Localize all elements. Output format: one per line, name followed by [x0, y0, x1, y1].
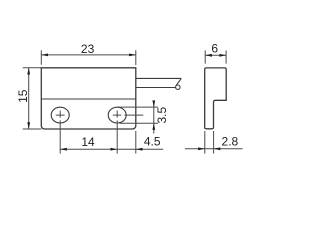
dim 23 line — [41, 54, 136, 56]
arrow 23 right — [129, 54, 136, 57]
dim 23 extension lines — [41, 50, 136, 65]
arrow 15 bottom — [27, 122, 30, 129]
arrow 6 left — [205, 54, 212, 57]
arrow 6 right — [219, 54, 226, 57]
svg-text:2.8: 2.8 — [222, 134, 239, 148]
arrow 2.8 right — [214, 147, 221, 150]
cable top edge — [136, 77, 181, 79]
arrow 23 left — [41, 54, 48, 57]
dim 3.5 line — [153, 101, 155, 134]
dim 15 extension lines — [23, 68, 42, 129]
dim 6 extension lines — [205, 50, 226, 63]
arrow 3.5 bottom — [152, 123, 155, 130]
svg-text:4.5: 4.5 — [144, 134, 161, 148]
svg-text:6: 6 — [211, 41, 218, 55]
mounting hole H1 — [51, 107, 69, 123]
arrow 4.5 at body edge — [136, 148, 143, 151]
dim 14 / 4.5 line — [60, 148, 163, 150]
sensor body outline (front view) — [41, 68, 136, 129]
arrow 14 right — [111, 148, 118, 151]
svg-text:15: 15 — [16, 89, 30, 103]
hole H2 centerlines — [113, 111, 144, 154]
arrow 3.5 top — [152, 100, 155, 107]
svg-text:14: 14 — [81, 135, 95, 149]
dim 15 line — [28, 68, 30, 129]
arrow 15 top — [27, 68, 30, 75]
hole H1 centerlines — [56, 111, 65, 154]
side view profile — [205, 68, 227, 129]
mounting hole H2 — [108, 107, 126, 123]
arrow 2.8 left — [198, 147, 205, 150]
body right edge extension for 4.5 — [135, 131, 137, 154]
cable break loop — [176, 85, 180, 89]
cable bottom edge — [136, 87, 176, 89]
arrow 14 left — [60, 148, 67, 151]
dim 2.8 line — [185, 148, 243, 150]
cable break diagonal — [176, 78, 182, 86]
svg-text:23: 23 — [81, 42, 95, 56]
dim 2.8 extension lines — [205, 131, 214, 154]
dim 6 line — [205, 54, 226, 56]
body divider line — [41, 98, 136, 100]
svg-text:3.5: 3.5 — [155, 107, 169, 124]
dim 3.5 extension lines — [117, 107, 158, 123]
